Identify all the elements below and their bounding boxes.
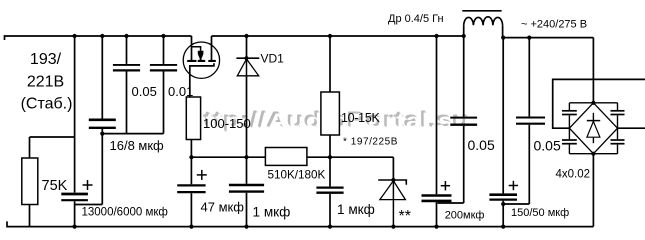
svg-text:510K/180K: 510K/180K xyxy=(268,169,326,182)
svg-text:16/8 мкф: 16/8 мкф xyxy=(110,138,165,153)
svg-text:Др 0.4/5 Гн: Др 0.4/5 Гн xyxy=(388,13,444,25)
svg-text:0.05: 0.05 xyxy=(132,84,157,99)
svg-text:0.05: 0.05 xyxy=(468,137,495,153)
svg-text:(Стаб.): (Стаб.) xyxy=(21,95,73,112)
svg-text:**: ** xyxy=(399,208,411,225)
svg-text:1 мкф: 1 мкф xyxy=(337,202,375,217)
svg-text:4x0.02: 4x0.02 xyxy=(556,169,591,181)
svg-text:13000/6000 мкф: 13000/6000 мкф xyxy=(82,206,168,218)
svg-text:75K: 75K xyxy=(42,178,68,194)
svg-text:100-150: 100-150 xyxy=(203,116,251,131)
svg-text:0.05: 0.05 xyxy=(534,137,561,153)
svg-text:1 мкф: 1 мкф xyxy=(253,205,291,220)
svg-text:* 197/225В: * 197/225В xyxy=(343,137,398,148)
svg-text:193/: 193/ xyxy=(30,51,62,68)
svg-text:47 мкф: 47 мкф xyxy=(201,200,245,215)
svg-text:221В: 221В xyxy=(27,74,64,91)
svg-text:0.01: 0.01 xyxy=(168,84,193,99)
svg-text:150/50 мкф: 150/50 мкф xyxy=(511,207,569,219)
svg-text:10-15K: 10-15K xyxy=(341,111,380,125)
svg-text:VD1: VD1 xyxy=(261,52,285,66)
svg-text:~ +240/275 В: ~ +240/275 В xyxy=(521,18,587,30)
svg-text:200мкф: 200мкф xyxy=(445,210,485,222)
